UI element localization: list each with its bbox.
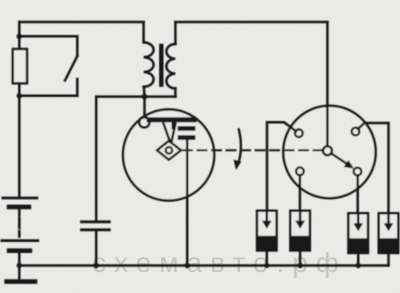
breaker lever V right leg: [172, 124, 176, 142]
spark plug FV1 body: [257, 211, 277, 251]
rotation arrow head: [234, 160, 242, 170]
contact upper: [180, 126, 193, 131]
spark plug FV1 bottom stem: [266, 251, 269, 266]
wire primary bottom stem: [143, 87, 146, 97]
wire battery to bus: [18, 253, 21, 266]
distributor terminal lower-right: [354, 168, 362, 176]
wire terminal UL to plug 1: [267, 122, 296, 210]
rotor arm line: [331, 153, 348, 164]
rotor arm arrowhead: [344, 160, 354, 169]
spark plug FV4 body: [379, 213, 399, 253]
spark plug FV2 arrow stem: [299, 211, 302, 221]
breaker lever post: [172, 122, 175, 128]
spark plug FV2 body: [290, 211, 310, 251]
wire top left: [19, 21, 143, 24]
wire capacitor stem bottom: [95, 230, 98, 266]
wire terminal LL to plug 2: [299, 175, 302, 211]
node bus-plug3 junction: [356, 263, 361, 268]
breaker lever V left leg: [164, 124, 170, 142]
rotation arrow arc: [238, 130, 241, 164]
distributor terminal lower-left: [296, 167, 304, 175]
breaker housing circle: [123, 109, 214, 200]
wire capacitor stem top: [95, 97, 98, 222]
ignition coil T1 secondary winding: [166, 44, 175, 88]
ignition coil T1 primary lead: [142, 22, 145, 42]
wire to battery: [18, 96, 21, 196]
ground lead: [18, 266, 21, 280]
node bus-battery junction: [17, 263, 22, 268]
capacitor C1 plates: [82, 222, 110, 230]
wire switch vertical: [76, 36, 79, 56]
wire ground bus: [19, 264, 388, 267]
node bus-capacitor junction: [94, 263, 99, 268]
cam diamond: [157, 141, 181, 160]
wire breaker feed: [143, 97, 146, 118]
ignition coil T1 primary winding: [144, 42, 154, 86]
wire secondary bottom stem: [174, 88, 177, 96]
battery GB1 long plate 2: [2, 239, 38, 242]
resistor R1: [13, 49, 27, 83]
node coil-breaker junction: [142, 94, 148, 100]
spark plug FV1 insulator black: [257, 236, 277, 251]
spark plug FV3 arrow stem: [357, 213, 360, 223]
spark plug FV4 arrowhead: [384, 223, 394, 231]
battery dashed link: [18, 218, 21, 237]
spark plug FV4 arrow stem: [387, 213, 390, 223]
distributor housing circle: [283, 106, 375, 198]
spark plug FV3 insulator black: [348, 238, 368, 253]
spark plug FV3 arrowhead: [353, 223, 363, 231]
wire terminal LR to plug 3: [356, 175, 359, 213]
wire switch stub: [76, 79, 79, 96]
spark plug FV1 arrow stem: [266, 211, 269, 221]
spark plug FV2 arrowhead: [295, 221, 305, 229]
spark plug FV2 bottom stem: [299, 251, 302, 266]
ignition coil T1 secondary lead: [174, 22, 177, 44]
ignition coil T1 core: [159, 46, 163, 85]
wire primary bottom run: [96, 95, 175, 98]
breaker pivot circle: [139, 117, 149, 127]
spark plug FV4 bottom stem: [387, 253, 390, 266]
node bus-contact junction: [185, 263, 190, 268]
wire contact to bus: [186, 140, 189, 266]
wire terminal UR to plug 4: [358, 123, 389, 213]
battery GB1 short plate 2: [9, 248, 30, 253]
spark plug FV4 insulator black: [379, 238, 399, 253]
node junction J2: [17, 93, 22, 98]
wire resistor stem top: [18, 36, 21, 49]
contact lower: [180, 135, 193, 140]
node bus-plug1 junction: [264, 263, 269, 268]
distributor terminal upper-left: [295, 129, 303, 137]
switch S1 blade: [65, 56, 77, 81]
distributor center electrode: [323, 146, 332, 155]
battery GB1 long plate 1: [3, 197, 37, 200]
wire top right run: [175, 21, 327, 24]
spark plug FV1 arrowhead: [262, 221, 272, 229]
ground bar: [7, 279, 35, 284]
wire battery inner stem: [18, 209, 21, 216]
distributor terminal upper-right: [352, 128, 360, 136]
wire switch branch bottom: [19, 95, 77, 98]
wire resistor stem bottom: [18, 83, 21, 96]
shaft dash-dot axis: [183, 149, 322, 151]
breaker lever bar: [147, 117, 197, 122]
battery GB1 short plate 1: [9, 205, 29, 210]
cam axis circle: [166, 147, 173, 154]
spark plug FV3 body: [348, 213, 368, 253]
wire left vertical top: [18, 22, 21, 36]
spark plug FV2 insulator black: [290, 236, 310, 251]
node junction J1: [17, 34, 22, 39]
wire distributor feed: [326, 22, 329, 146]
spark plug FV3 bottom stem: [357, 253, 360, 266]
wire switch branch top: [19, 35, 77, 38]
node bus-plug2 junction: [297, 263, 302, 268]
